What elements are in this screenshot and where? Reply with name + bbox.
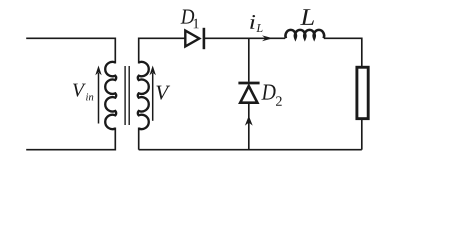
wire D2 branch upper [248, 38, 250, 82]
label V sec [156, 86, 170, 100]
resistor load [357, 67, 368, 118]
label D1 D [181, 10, 195, 24]
wire D1 cathode to junction to inductor [204, 37, 285, 39]
wire secondary top lead to D1 anode [139, 38, 185, 63]
label D1 1 [194, 19, 199, 29]
wire load bottom to bottom rail [361, 120, 363, 150]
wire top-left (primary top lead) [26, 38, 115, 63]
label D2 2 [276, 96, 282, 105]
arrow Vin polarity [95, 66, 101, 124]
wire D2 branch lower [248, 104, 250, 150]
wire inductor to load top [324, 38, 362, 66]
arrow V polarity [150, 66, 156, 121]
wire bottom rail (secondary side) [139, 149, 362, 151]
transformer primary winding [105, 62, 116, 129]
inductor L [286, 30, 325, 38]
label L [300, 9, 314, 25]
wire bottom-left (primary bottom lead) [26, 128, 115, 150]
transformer core [125, 66, 129, 125]
label Vin in [86, 93, 93, 100]
transformer secondary winding [138, 62, 149, 129]
diode D2 [238, 83, 259, 103]
arrow iL current [262, 35, 273, 41]
arrow D2 current [245, 116, 253, 126]
label D2 D [261, 85, 275, 100]
label iL i [250, 15, 255, 29]
label Vin V [73, 84, 86, 97]
label iL L [256, 24, 262, 32]
wire secondary bottom lead [138, 128, 140, 150]
diode D1 [185, 28, 204, 49]
